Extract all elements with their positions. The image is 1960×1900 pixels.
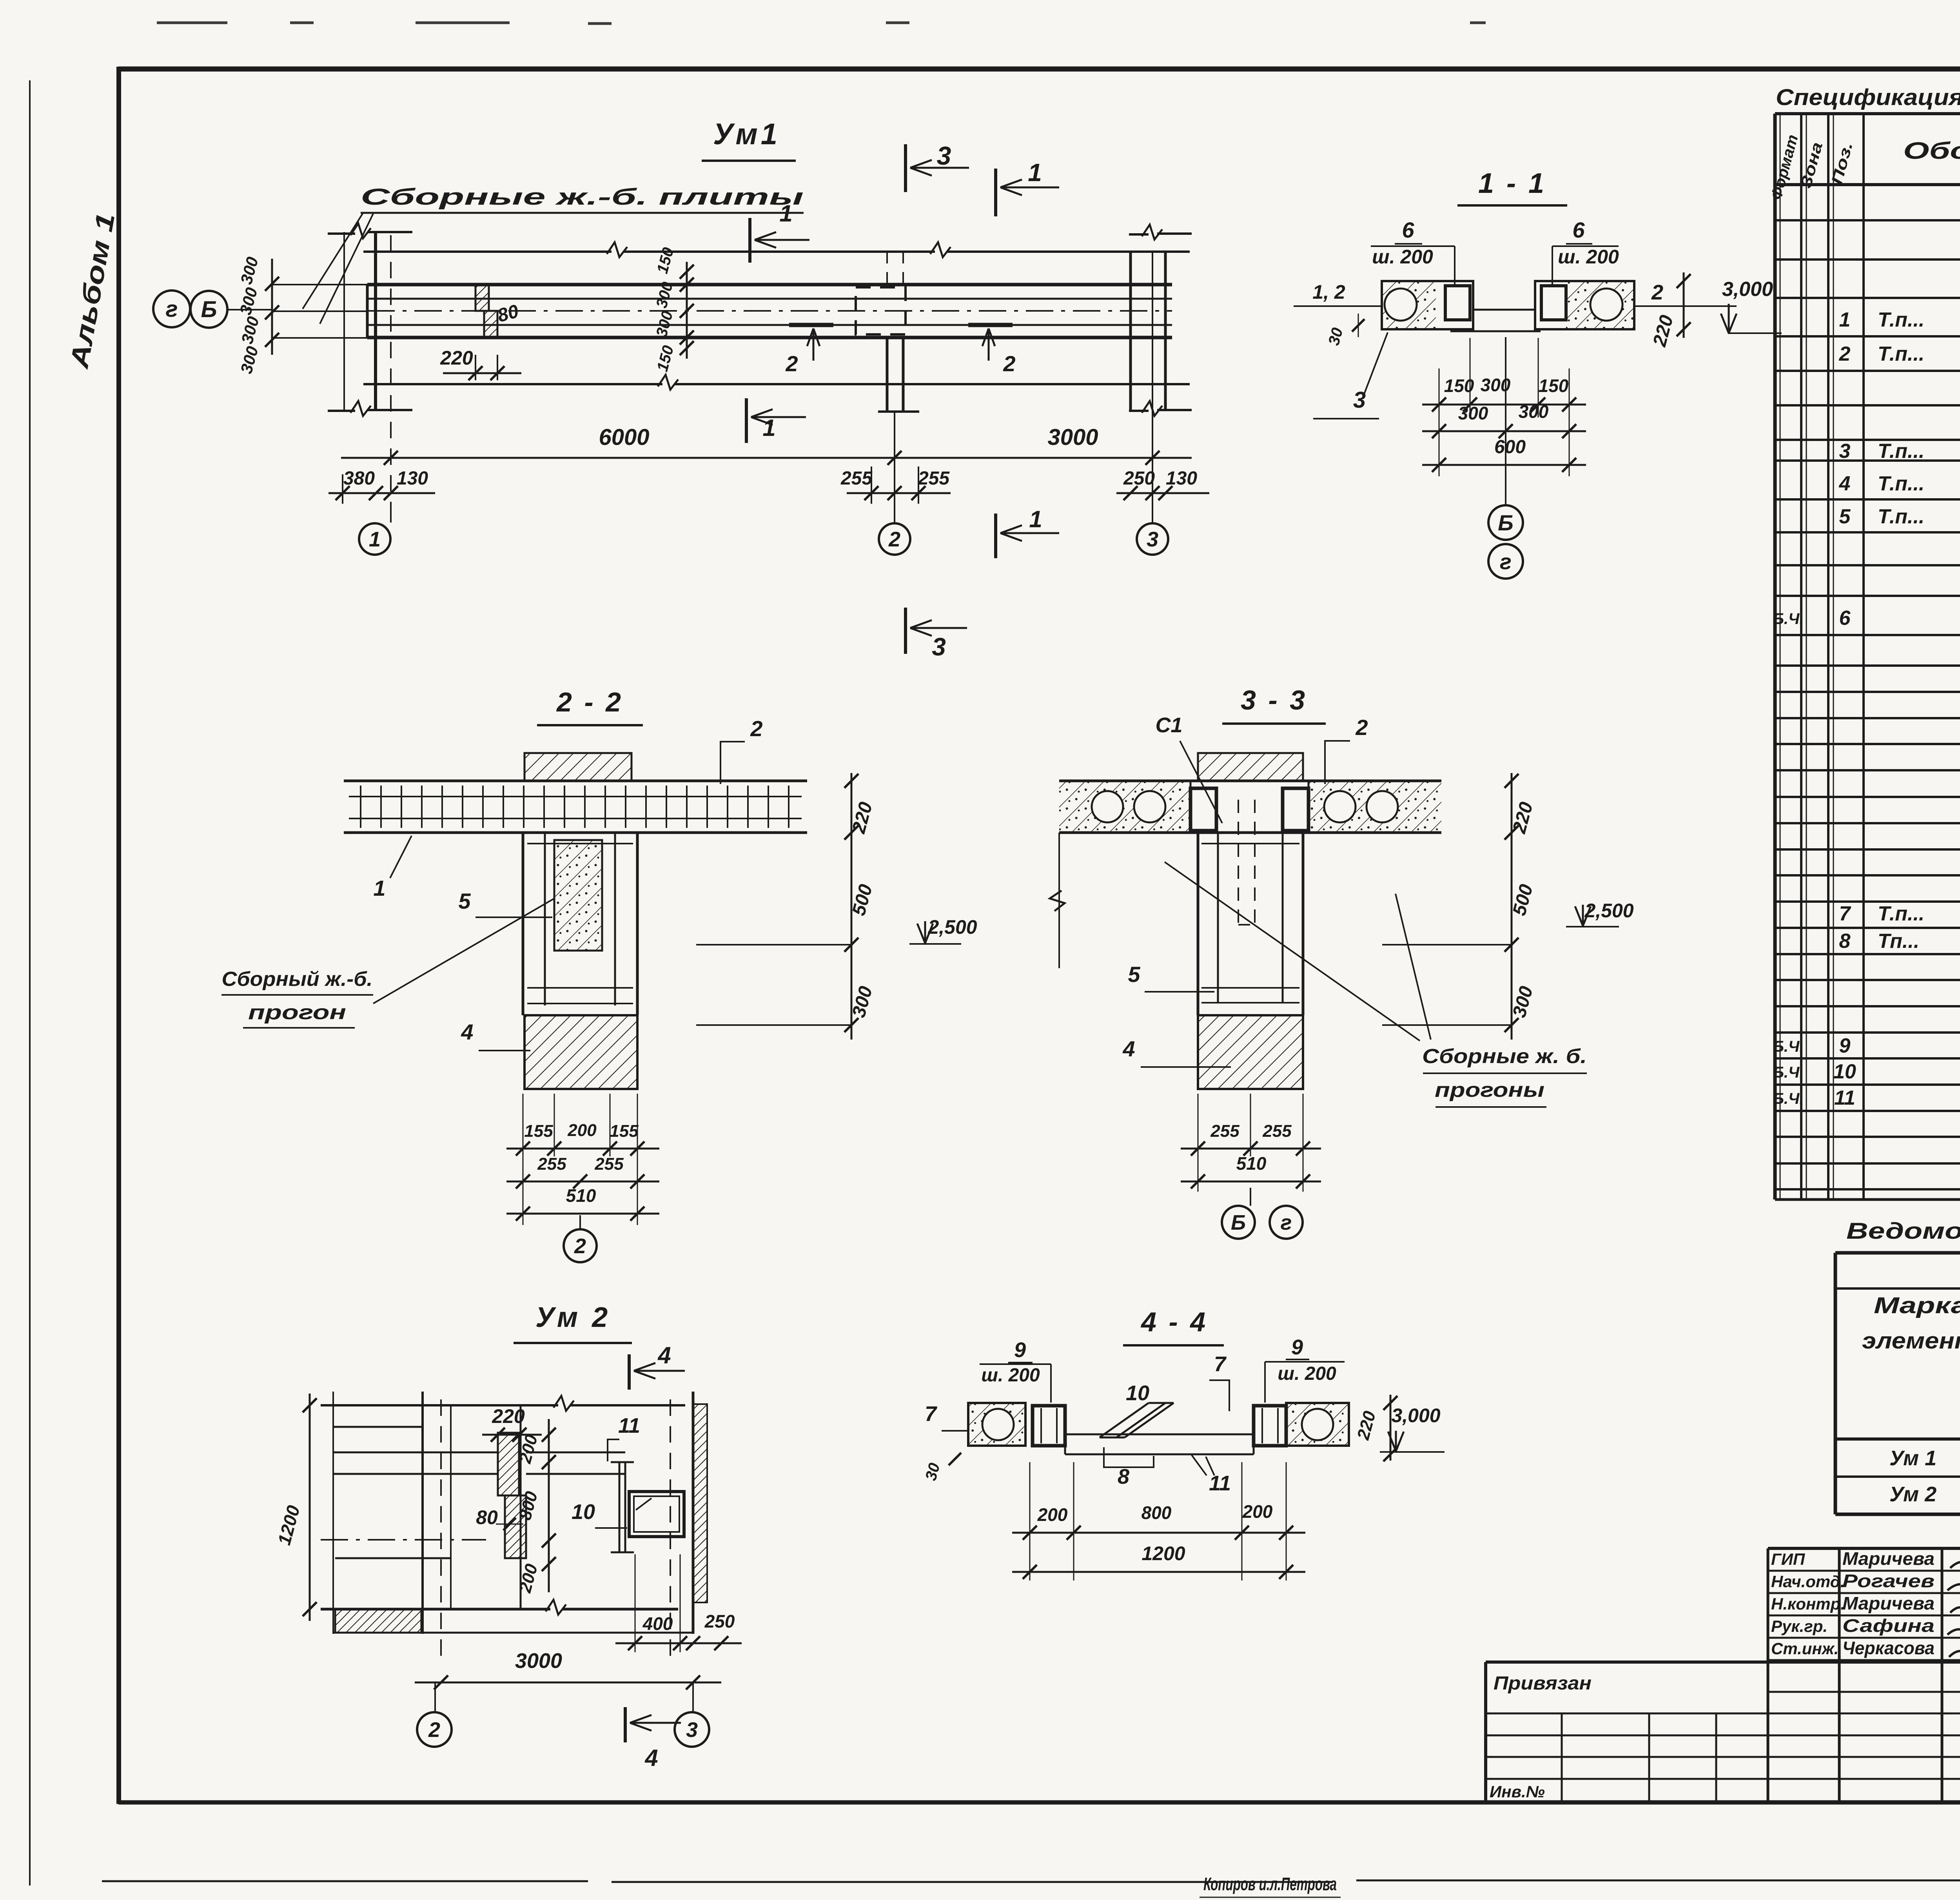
dim 200 800 200 Um2 bbox=[548, 1419, 550, 1592]
bottom dims 4-4 bbox=[1029, 1462, 1031, 1581]
svg-text:Тп...: Тп... bbox=[1878, 930, 1919, 953]
section mark 1 mid-left bbox=[748, 218, 751, 263]
wall below 3-3 bbox=[1198, 1015, 1303, 1089]
column 3-3 bbox=[1197, 833, 1200, 1015]
svg-text:9: 9 bbox=[1839, 1034, 1851, 1057]
svg-text:Сборные ж. б.: Сборные ж. б. bbox=[1422, 1045, 1587, 1068]
right dims 3-3 bbox=[1511, 773, 1513, 1040]
svg-text:Ум 2: Ум 2 bbox=[1889, 1483, 1936, 1506]
column 1 bbox=[343, 232, 345, 411]
svg-text:10: 10 bbox=[1833, 1060, 1856, 1083]
svg-text:155: 155 bbox=[524, 1121, 553, 1141]
svg-text:Б: Б bbox=[201, 297, 217, 322]
svg-text:380: 380 bbox=[343, 468, 375, 489]
svg-text:Маричева: Маричева bbox=[1842, 1593, 1935, 1613]
slab 3-3 bbox=[1059, 780, 1441, 782]
svg-text:Черкасова: Черкасова bbox=[1842, 1638, 1935, 1658]
svg-text:Б.Ч.: Б.Ч. bbox=[1773, 1038, 1804, 1055]
svg-text:3,000: 3,000 bbox=[1722, 278, 1773, 301]
svg-text:3000: 3000 bbox=[1047, 425, 1098, 450]
monolithic plate hatch Um1 bbox=[475, 285, 489, 311]
svg-text:1: 1 bbox=[1028, 158, 1042, 187]
svg-text:510: 510 bbox=[566, 1185, 596, 1206]
svg-text:11: 11 bbox=[1209, 1472, 1231, 1495]
sheet border top bbox=[118, 67, 1960, 72]
svg-text:1: 1 bbox=[779, 200, 792, 227]
svg-text:3: 3 bbox=[937, 141, 951, 170]
svg-text:Привязан: Привязан bbox=[1494, 1673, 1592, 1694]
svg-text:600: 600 bbox=[1494, 437, 1526, 457]
svg-text:ш. 200: ш. 200 bbox=[981, 1365, 1040, 1386]
middle strip 4-4 bbox=[1065, 1434, 1254, 1435]
right dims 2-2 bbox=[851, 773, 853, 1040]
svg-text:4: 4 bbox=[461, 1020, 473, 1044]
hatch wall bottom-left Um2 bbox=[335, 1609, 421, 1633]
sheet trim line left bbox=[29, 80, 31, 1885]
grid circle 2 bbox=[879, 523, 910, 555]
stirrup squares 3-3 bbox=[1191, 788, 1216, 831]
svg-text:ш. 200: ш. 200 bbox=[1278, 1363, 1336, 1384]
svg-text:3: 3 bbox=[1353, 387, 1366, 413]
svg-text:250: 250 bbox=[704, 1611, 735, 1631]
svg-text:Обозначение: Обозначение bbox=[1903, 138, 1960, 164]
svg-text:11: 11 bbox=[1834, 1087, 1855, 1109]
svg-text:1200: 1200 bbox=[1142, 1543, 1185, 1564]
dim 150 300 300 150 bbox=[686, 262, 688, 359]
svg-text:г: г bbox=[1500, 549, 1512, 574]
bottom dims 2-2 bbox=[523, 1094, 524, 1225]
axis to circles 1-1 bbox=[1505, 337, 1506, 505]
svg-text:Нач.отд.: Нач.отд. bbox=[1771, 1572, 1845, 1591]
svg-text:4: 4 bbox=[644, 1745, 658, 1771]
svg-text:3: 3 bbox=[932, 633, 946, 661]
pencil dashes top bbox=[157, 23, 1486, 24]
svg-text:2,500: 2,500 bbox=[1584, 900, 1633, 922]
section mark 3 bottom bbox=[904, 608, 907, 654]
svg-text:Ум 2: Ум 2 bbox=[535, 1302, 611, 1333]
svg-text:250: 250 bbox=[1123, 468, 1155, 489]
svg-text:Б: Б bbox=[1231, 1211, 1246, 1234]
svg-text:2: 2 bbox=[1839, 343, 1851, 365]
sheet border left bbox=[116, 67, 121, 1804]
svg-text:2: 2 bbox=[574, 1234, 586, 1258]
svg-text:2: 2 bbox=[1355, 715, 1368, 740]
grid circle B bbox=[1488, 505, 1523, 540]
left stirrup square 4-4 bbox=[1033, 1406, 1065, 1446]
svg-text:1: 1 bbox=[1029, 506, 1042, 532]
svg-text:7: 7 bbox=[925, 1402, 938, 1426]
svg-text:Рук.гр.: Рук.гр. bbox=[1771, 1617, 1828, 1635]
svg-text:Сборные ж.-б. плиты: Сборные ж.-б. плиты bbox=[361, 184, 804, 210]
svg-text:5: 5 bbox=[1128, 962, 1140, 987]
grid circle G bbox=[1488, 544, 1523, 579]
svg-text:9: 9 bbox=[1291, 1336, 1303, 1359]
svg-text:3: 3 bbox=[686, 1718, 698, 1742]
svg-text:Б.Ч.: Б.Ч. bbox=[1773, 610, 1804, 628]
svg-text:1 - 1: 1 - 1 bbox=[1478, 168, 1546, 199]
detail arrow 2 (a) bbox=[789, 323, 833, 327]
section 1-1 slab right bbox=[1535, 281, 1634, 329]
svg-text:150: 150 bbox=[1444, 376, 1474, 396]
rebar pair Um2 bbox=[619, 1462, 621, 1552]
svg-text:8: 8 bbox=[1839, 930, 1851, 953]
dim 220 right 1-1 bbox=[1683, 272, 1685, 338]
axis leader 2 right bbox=[1634, 305, 1737, 307]
wall above 3-3 bbox=[1198, 753, 1303, 781]
svg-text:220: 220 bbox=[440, 347, 473, 369]
slab 2-2 bbox=[344, 780, 807, 782]
svg-text:7: 7 bbox=[1839, 902, 1851, 925]
svg-text:Марка: Марка bbox=[1874, 1293, 1960, 1318]
svg-text:Маричева: Маричева bbox=[1842, 1548, 1935, 1569]
dims below 1-1 bbox=[1439, 368, 1440, 476]
svg-text:4: 4 bbox=[1839, 472, 1851, 495]
svg-text:800: 800 bbox=[1142, 1503, 1172, 1523]
plan bottom wall line bbox=[363, 383, 662, 385]
svg-text:510: 510 bbox=[1236, 1153, 1267, 1174]
svg-text:прогон: прогон bbox=[248, 1001, 346, 1024]
svg-text:2: 2 bbox=[428, 1718, 440, 1742]
monolithic strip Um2 bbox=[498, 1433, 519, 1495]
svg-text:1: 1 bbox=[369, 528, 381, 551]
signature table bbox=[1767, 1548, 1769, 1802]
svg-text:Инв.№: Инв.№ bbox=[1490, 1782, 1545, 1801]
svg-text:220: 220 bbox=[492, 1405, 525, 1427]
svg-text:3 - 3: 3 - 3 bbox=[1241, 685, 1307, 715]
svg-text:2: 2 bbox=[1003, 351, 1015, 376]
grid circles B G 3-3 bbox=[1250, 1188, 1251, 1206]
svg-text:3000: 3000 bbox=[515, 1649, 562, 1673]
Um2 vertical walls bbox=[332, 1392, 334, 1634]
svg-text:1: 1 bbox=[762, 415, 775, 441]
section mark 4 top bbox=[628, 1354, 631, 1390]
section mark 4 bottom bbox=[624, 1707, 627, 1742]
svg-text:255: 255 bbox=[537, 1154, 566, 1174]
svg-text:130: 130 bbox=[1166, 468, 1197, 489]
svg-text:прогоны: прогоны bbox=[1435, 1079, 1544, 1102]
grid circle 2 below 2-2 bbox=[579, 1215, 581, 1229]
svg-text:2 - 2: 2 - 2 bbox=[556, 687, 623, 717]
svg-text:Сафина: Сафина bbox=[1842, 1615, 1935, 1636]
column 3 bbox=[1129, 252, 1132, 411]
sheet trim line bottom bbox=[102, 1880, 1960, 1882]
svg-text:5: 5 bbox=[1839, 505, 1851, 528]
left ext 3-3 bbox=[1058, 833, 1060, 968]
node axis G B circles bbox=[153, 290, 190, 327]
plan top wall line bbox=[363, 250, 612, 253]
wall below 2-2 bbox=[524, 1015, 637, 1089]
svg-text:ш. 200: ш. 200 bbox=[1372, 246, 1433, 268]
svg-text:1: 1 bbox=[373, 876, 385, 900]
svg-text:Ведомость расхода стали на эле: Ведомость расхода стали на элемент, кг bbox=[1846, 1218, 1960, 1244]
vedomost grid bbox=[1835, 1251, 1960, 1255]
svg-text:80: 80 bbox=[476, 1506, 498, 1528]
svg-text:7: 7 bbox=[1214, 1352, 1227, 1376]
svg-text:Рогачев: Рогачев bbox=[1842, 1571, 1935, 1591]
svg-text:Т.п...: Т.п... bbox=[1878, 440, 1924, 463]
svg-text:6: 6 bbox=[1402, 218, 1414, 242]
svg-text:С1: С1 bbox=[1155, 713, 1182, 737]
spec table grid bbox=[1773, 114, 1777, 1200]
svg-text:2: 2 bbox=[1651, 281, 1663, 304]
svg-text:ГИП: ГИП bbox=[1771, 1550, 1805, 1568]
grid circle 2 Um2 bbox=[434, 1682, 436, 1712]
svg-text:Б: Б bbox=[1498, 510, 1514, 535]
svg-text:4: 4 bbox=[657, 1342, 671, 1368]
section 4-4 left block bbox=[968, 1403, 1025, 1446]
svg-text:Ум 1: Ум 1 bbox=[1889, 1446, 1936, 1470]
bottom dims 3-3 bbox=[1198, 1094, 1199, 1192]
svg-text:2: 2 bbox=[750, 716, 762, 741]
svg-text:Т.п...: Т.п... bbox=[1878, 343, 1924, 365]
svg-text:Т.п...: Т.п... bbox=[1878, 505, 1924, 528]
opening frame Um2 bbox=[629, 1492, 684, 1537]
svg-text:4: 4 bbox=[1122, 1036, 1135, 1061]
svg-text:Н.контр.: Н.контр. bbox=[1771, 1595, 1845, 1613]
dim 220 4-4 bbox=[1390, 1395, 1392, 1461]
svg-text:элемента: элемента bbox=[1862, 1328, 1960, 1354]
svg-text:400: 400 bbox=[642, 1613, 673, 1634]
wall above 2-2 bbox=[524, 753, 632, 781]
svg-text:г: г bbox=[166, 296, 178, 322]
svg-text:2: 2 bbox=[888, 528, 900, 551]
svg-text:Б.Ч.: Б.Ч. bbox=[1773, 1090, 1804, 1107]
svg-text:200: 200 bbox=[1037, 1504, 1068, 1525]
svg-text:255: 255 bbox=[594, 1154, 624, 1174]
svg-text:255: 255 bbox=[1210, 1121, 1240, 1141]
svg-text:6: 6 bbox=[1839, 607, 1851, 630]
svg-text:ш. 200: ш. 200 bbox=[1558, 246, 1619, 268]
svg-text:10: 10 bbox=[1126, 1381, 1149, 1405]
svg-text:6000: 6000 bbox=[599, 425, 649, 450]
svg-text:3: 3 bbox=[1839, 440, 1851, 463]
svg-text:6: 6 bbox=[1572, 218, 1585, 242]
hanging dashed rebar 3-3 bbox=[1238, 800, 1239, 925]
column 2-2 bbox=[522, 833, 524, 1015]
section 1-1 slab left bbox=[1382, 281, 1473, 329]
svg-text:200: 200 bbox=[567, 1121, 597, 1140]
leader 3 bbox=[1364, 332, 1388, 394]
svg-text:3: 3 bbox=[1147, 528, 1158, 551]
svg-text:3,000: 3,000 bbox=[1391, 1405, 1440, 1426]
Um2 horizontals bbox=[321, 1404, 558, 1406]
svg-text:5: 5 bbox=[458, 889, 471, 913]
section mark 3 top bbox=[904, 144, 907, 192]
section 1-1 middle strip bbox=[1473, 309, 1535, 311]
axis leader 1,2 bbox=[1294, 305, 1382, 307]
svg-text:Т.п...: Т.п... bbox=[1878, 472, 1924, 495]
svg-text:255: 255 bbox=[1262, 1121, 1292, 1141]
svg-text:4 - 4: 4 - 4 bbox=[1140, 1307, 1208, 1337]
privyazan box bbox=[1484, 1662, 1487, 1802]
grid circle 3 bbox=[1137, 523, 1168, 555]
svg-text:150: 150 bbox=[1539, 376, 1569, 396]
section mark 1 top bbox=[994, 169, 997, 216]
svg-text:1: 1 bbox=[1839, 309, 1851, 331]
svg-text:Т.п...: Т.п... bbox=[1878, 309, 1924, 331]
svg-text:300: 300 bbox=[1519, 401, 1549, 422]
dim 300x4 left bbox=[271, 259, 273, 355]
beam Um1 bbox=[367, 283, 1172, 287]
svg-text:Сборный ж.-б.: Сборный ж.-б. bbox=[222, 968, 373, 991]
grid circle 3 Um2 bbox=[692, 1682, 694, 1712]
hatch along right wall Um2 bbox=[693, 1404, 707, 1602]
dim 1200 Um2 bbox=[309, 1394, 311, 1621]
section mark 1 bottom bbox=[745, 398, 748, 443]
svg-text:300: 300 bbox=[1458, 403, 1488, 423]
svg-text:Б.Ч.: Б.Ч. bbox=[1773, 1064, 1804, 1081]
svg-text:1, 2: 1, 2 bbox=[1312, 281, 1345, 303]
grid circle 1 bbox=[359, 523, 390, 555]
svg-text:200: 200 bbox=[1242, 1501, 1273, 1522]
svg-text:155: 155 bbox=[610, 1121, 639, 1141]
svg-text:Копиров и.л.Петрова: Копиров и.л.Петрова bbox=[1203, 1874, 1337, 1894]
svg-text:10: 10 bbox=[572, 1500, 595, 1524]
prefab girder hatch 2-2 bbox=[554, 840, 602, 951]
right stirrup square 4-4 bbox=[1254, 1406, 1286, 1446]
section 4-4 right block bbox=[1286, 1403, 1349, 1446]
sheet border bottom bbox=[118, 1800, 1960, 1805]
svg-text:г: г bbox=[1281, 1211, 1292, 1234]
svg-text:255: 255 bbox=[918, 468, 950, 489]
svg-text:Спецификация монолитных участк: Спецификация монолитных участков Ум 1 и … bbox=[1776, 85, 1960, 110]
detail arrow 2 (b) bbox=[968, 323, 1013, 327]
svg-text:Ст.инж.: Ст.инж. bbox=[1771, 1639, 1838, 1658]
svg-text:130: 130 bbox=[397, 468, 428, 489]
svg-text:9: 9 bbox=[1014, 1338, 1026, 1362]
section mark 1 bottom-right bbox=[994, 514, 997, 558]
svg-text:2,500: 2,500 bbox=[927, 916, 977, 938]
svg-text:Ум1: Ум1 bbox=[713, 118, 780, 151]
svg-text:255: 255 bbox=[840, 468, 873, 489]
svg-text:11: 11 bbox=[618, 1414, 640, 1437]
diagonal leaders progony bbox=[1165, 862, 1420, 1041]
svg-text:8: 8 bbox=[1118, 1465, 1129, 1488]
column 2 bbox=[886, 252, 888, 285]
svg-text:Т.п...: Т.п... bbox=[1878, 902, 1924, 925]
svg-text:2: 2 bbox=[785, 351, 798, 376]
